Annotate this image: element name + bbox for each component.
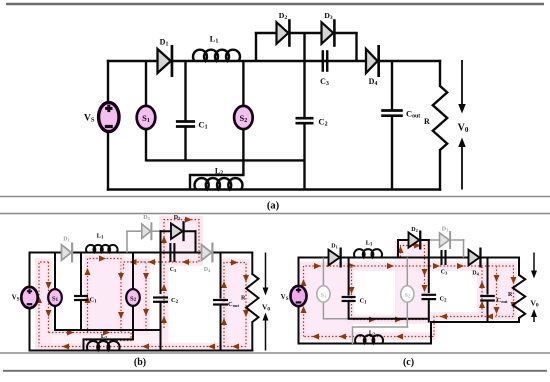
(b) pink tint region: C1-L1-S2 loop interior — [84, 255, 124, 336]
wire: (a) upper bypass branch left riser — [255, 32, 257, 62]
(b) wire: S1 top lead — [54, 253, 56, 290]
(b) wire: Cout top lead — [220, 253, 222, 299]
(c) wire: gray step to L2 — [353, 327, 409, 344]
svg-text:R: R — [508, 292, 513, 298]
(b) wire: C1 bottom lead — [80, 300, 82, 331]
(c) wire: load corner — [518, 257, 520, 277]
svg-text:V0: V0 — [458, 123, 469, 134]
(b) dotted: C2 branch up — [161, 262, 167, 328]
wire: step from S2 lead down to L2 left node — [190, 175, 245, 191]
wire: (a) mid rail joining S1 C1 bottoms to C2 branch — [146, 159, 305, 161]
wire: S1 bottom lead — [145, 128, 147, 162]
svg-text:(b): (b) — [134, 357, 146, 368]
wire: (a) top rail from Vs to load corner — [107, 60, 441, 62]
wire: S2 bottom lead through mid rail to step — [242, 128, 244, 176]
(b) dotted: right of S2 branch — [133, 262, 146, 331]
(c) wire: C1 top lead — [348, 258, 350, 296]
(c) wire: load bottom lead — [518, 317, 520, 323]
wire: load branch bottom lead — [439, 149, 441, 191]
svg-text:D1: D1 — [63, 237, 70, 243]
svg-text:D2: D2 — [411, 227, 418, 233]
separator line above (a) caption — [0, 196, 550, 198]
annotation V0 bottom arrow — [461, 145, 463, 190]
(c) switch S1 (inactive gray) — [317, 286, 330, 302]
(b) resistor R — [246, 274, 258, 322]
(b) wire: Vs top lead — [29, 252, 31, 288]
(b) wire: C2 branch — [160, 253, 162, 295]
(b) dotted: output loop around Cout and R — [224, 263, 246, 347]
svg-text:L1: L1 — [97, 233, 104, 241]
svg-text:D2: D2 — [143, 215, 150, 221]
(c) wire: gray D3 branch — [429, 239, 465, 241]
(b) dotted: S1 branch down — [46, 262, 52, 333]
svg-text:C2: C2 — [171, 297, 179, 305]
wire: center riser from bypass branch through top rail to C2 — [303, 32, 305, 118]
(b) pink tint region: source loop interior — [35, 258, 52, 350]
(b) wire: C1 top lead — [80, 253, 82, 297]
svg-text:D4: D4 — [472, 271, 479, 277]
(b) pink tint region: D3 bypass loop — [159, 216, 203, 267]
(b) annotation V0 bottom arrow — [265, 319, 267, 351]
separator line below (a) caption — [0, 213, 550, 215]
svg-text:C1: C1 — [359, 298, 367, 306]
diode D3 — [322, 22, 334, 44]
(b) switch S1 — [48, 289, 62, 306]
(c) pink tint region: mid rail band — [346, 315, 432, 325]
(b) capacitor Cout — [213, 299, 228, 301]
wire: (a) upper bypass branch horizontal — [255, 32, 358, 34]
(b) capacitor C1 — [74, 295, 88, 297]
wire: load branch top corner — [439, 60, 441, 87]
(c) wire: C1 bottom lead — [348, 301, 350, 319]
(c) capacitor Cout — [480, 295, 495, 297]
(c) wire: Vs top lead — [298, 257, 300, 288]
(b) voltage source Vs — [21, 287, 37, 308]
svg-text:D3: D3 — [442, 227, 449, 233]
wire: (a) bottom rail — [107, 188, 441, 190]
capacitor C2 — [296, 117, 314, 120]
(c) dotted: mid rail path C1 to C2 — [352, 266, 427, 320]
wire: C2 bottom lead — [303, 124, 305, 191]
(b) wire: D3 branch horizontal — [160, 230, 197, 232]
(c) annotation V0 bottom arrow — [533, 315, 535, 322]
(b) dotted: mid rail path to step — [49, 333, 132, 341]
diode D4 — [366, 49, 378, 73]
wire: (a) Vs bottom lead — [107, 131, 109, 191]
(b) pink tint region: step band — [44, 329, 166, 342]
(c) capacitor C3 in top rail — [440, 250, 442, 265]
svg-text:VS: VS — [281, 293, 289, 302]
(c) resistor R — [513, 275, 525, 318]
(b) diode D1 (inactive gray) — [62, 245, 72, 261]
(c) wire: mid rail C1 to C2 branch — [348, 318, 430, 320]
(c) voltage source Vs — [291, 286, 307, 306]
svg-text:L1: L1 — [366, 240, 373, 248]
svg-text:D3: D3 — [324, 11, 333, 21]
(c) pink tint region: output cell — [477, 262, 517, 320]
svg-text:C3: C3 — [320, 77, 329, 87]
(c) wire: D2 branch horizontal — [397, 239, 430, 241]
(c) pink tint region: bottom right band — [430, 312, 517, 320]
switch S1 — [137, 106, 156, 129]
svg-text:L2: L2 — [369, 331, 375, 337]
(c) dotted: bottom return right segment — [304, 317, 514, 337]
(c) pink tint region: D2 C2 column — [395, 241, 430, 323]
(b) dotted: D3 bypass loop — [124, 220, 200, 270]
(c) wire: C2 bottom lead — [428, 299, 430, 322]
svg-text:D1: D1 — [160, 38, 169, 48]
svg-text:S2: S2 — [404, 292, 410, 299]
(c) wire: bottom rail right (higher) — [430, 321, 520, 323]
(c) dotted: between Cout and R — [494, 266, 500, 317]
svg-text:C2: C2 — [439, 296, 447, 304]
(c) wire: top rail — [298, 257, 521, 259]
svg-text:D4: D4 — [204, 267, 211, 273]
figure bottom border line — [3, 370, 547, 372]
(c) dotted: main loop along top rail — [304, 266, 514, 337]
svg-text:L2: L2 — [101, 334, 107, 340]
(c) diode D4 — [469, 250, 480, 266]
wire: C1 bottom lead — [184, 128, 186, 162]
(b) wire: gray D2 branch horizontal — [126, 230, 160, 232]
(b) wire: mid rail — [55, 329, 162, 331]
(b) dotted: bottom return rail — [39, 344, 246, 350]
(c) wire: S2 gray leads — [406, 258, 408, 287]
svg-text:C3: C3 — [170, 267, 177, 273]
(c) wire: Cout top lead — [487, 258, 489, 295]
svg-text:C3: C3 — [441, 270, 448, 276]
inductor L1 — [193, 50, 240, 61]
(c) dotted: Cout branch — [479, 266, 485, 317]
(c) wire: bottom jog at C2 node — [430, 321, 432, 345]
(b) pink tint region: C2 branch band — [159, 266, 169, 350]
svg-text:Cout: Cout — [497, 297, 508, 304]
(b) wire: S2 top lead — [132, 253, 134, 290]
svg-text:D4: D4 — [369, 77, 378, 87]
(b) switch S2 — [126, 289, 140, 306]
(c) inductor L1 — [354, 249, 382, 257]
wire: Cout top lead — [391, 61, 393, 110]
svg-text:(c): (c) — [403, 357, 414, 368]
voltage source Vs — [99, 102, 119, 131]
(c) wire: gray D3 right riser — [463, 239, 465, 258]
(c) pink tint region: bottom return band — [300, 332, 436, 341]
(c) switch S2 (inactive gray) — [401, 286, 414, 302]
(c) wire: Cout bottom lead — [487, 301, 489, 324]
resistor R — [433, 86, 447, 150]
svg-text:D1: D1 — [331, 244, 338, 250]
svg-text:Cout: Cout — [406, 109, 420, 120]
(b) diode D4 (inactive gray) — [202, 245, 212, 261]
node: C1 top junction / wire — [184, 61, 186, 121]
wire: S2 top lead — [242, 61, 244, 107]
capacitor C3 in top rail — [322, 50, 325, 72]
(b) wire: step to L2 — [84, 339, 135, 351]
svg-text:L1: L1 — [210, 34, 219, 45]
(c) diode D2 — [409, 233, 420, 248]
svg-text:S1: S1 — [321, 292, 327, 299]
(b) annotation V0 top arrow — [265, 253, 267, 290]
svg-text:L2: L2 — [215, 167, 223, 177]
(b) wire: S2 bottom lead — [132, 306, 134, 341]
(b) dotted: C1 to L1 loop left side — [88, 259, 122, 333]
diode D2 — [277, 22, 289, 44]
(b) diode D3 — [171, 223, 183, 239]
wire: (a) upper bypass branch right riser — [355, 32, 357, 62]
(c) pink tint region: input loop interior — [300, 262, 354, 340]
(b) wire: black riser C2/D3 node — [160, 230, 162, 253]
(b) pink tint region: S2 to C2 band — [120, 258, 151, 335]
svg-text:D3: D3 — [174, 215, 181, 221]
svg-text:R: R — [424, 117, 430, 126]
switch S2 — [234, 106, 253, 129]
wire: Cout bottom lead — [391, 117, 393, 191]
(c) wire: riser to D2 branch — [397, 239, 399, 259]
svg-text:Cout: Cout — [228, 301, 239, 308]
svg-text:(a): (a) — [267, 201, 280, 212]
(c) diode D3 (inactive gray) — [440, 233, 450, 247]
(c) wire: S1 gray leads — [322, 258, 324, 287]
(b) wire: bottom rail — [29, 350, 254, 352]
(b) pink tint region: bottom return band — [35, 343, 250, 351]
(c) wire: C2 branch riser — [428, 239, 430, 293]
(b) wire: S1 bottom lead — [54, 306, 56, 332]
svg-text:VS: VS — [84, 114, 95, 124]
(b) pink halo + dotted current path: source loop around Vs — [39, 262, 49, 347]
(c) diode D1 — [329, 250, 340, 266]
separator line above (b)(c) captions — [0, 352, 550, 354]
(b) inductor L1 — [86, 245, 118, 253]
(c) dotted: D2 bypass loop — [401, 246, 425, 294]
svg-text:C2: C2 — [318, 117, 327, 128]
diode D1 — [158, 49, 171, 73]
(c) capacitor C2 — [422, 294, 437, 296]
(b) wire: gray riser to D2 branch (inactive) — [126, 231, 128, 252]
(c) wire: Vs bottom lead — [298, 306, 300, 345]
capacitor Cout — [381, 109, 403, 112]
(c) pink tint region: top rail band — [300, 262, 518, 272]
(b) wire: Vs bottom lead — [29, 308, 31, 352]
(b) pink tint region: output loop interior — [220, 259, 251, 351]
(c) inductor L2 — [355, 335, 383, 343]
svg-text:V0: V0 — [262, 303, 270, 313]
(b) wire: Cout bottom lead — [220, 305, 222, 352]
(b) wire: top rail — [29, 252, 254, 254]
wire: (a) left branch Vs top lead — [107, 60, 109, 103]
(b) capacitor C2 — [153, 296, 168, 298]
figure top border line — [6, 3, 544, 5]
svg-text:V0: V0 — [530, 299, 538, 309]
svg-text:D2: D2 — [279, 11, 288, 21]
(c) wire: bottom rail left — [298, 343, 433, 345]
svg-text:C1: C1 — [198, 120, 207, 131]
inductor L2 — [195, 178, 243, 189]
annotation V0 top arrow — [461, 60, 463, 106]
wire: S1 top lead — [145, 61, 147, 107]
(b) inductor L2 — [87, 341, 120, 350]
(b) wire: load bottom lead — [251, 321, 253, 352]
(b) capacitor C3 in top rail — [169, 243, 171, 262]
(c) capacitor C1 — [342, 296, 356, 298]
(b) wire: C2 bottom lead — [160, 302, 162, 352]
(c) annotation V0 top arrow — [533, 253, 535, 273]
(c) wire: gray mid rail S1 to C1 — [323, 318, 348, 320]
(b) wire: D3 branch right riser — [195, 230, 197, 253]
(b) wire: load corner — [251, 252, 253, 276]
svg-text:R: R — [241, 296, 246, 302]
(b) diode D2 (inactive gray) — [142, 224, 151, 238]
svg-text:VS: VS — [12, 294, 20, 303]
capacitor C1 — [176, 120, 195, 123]
